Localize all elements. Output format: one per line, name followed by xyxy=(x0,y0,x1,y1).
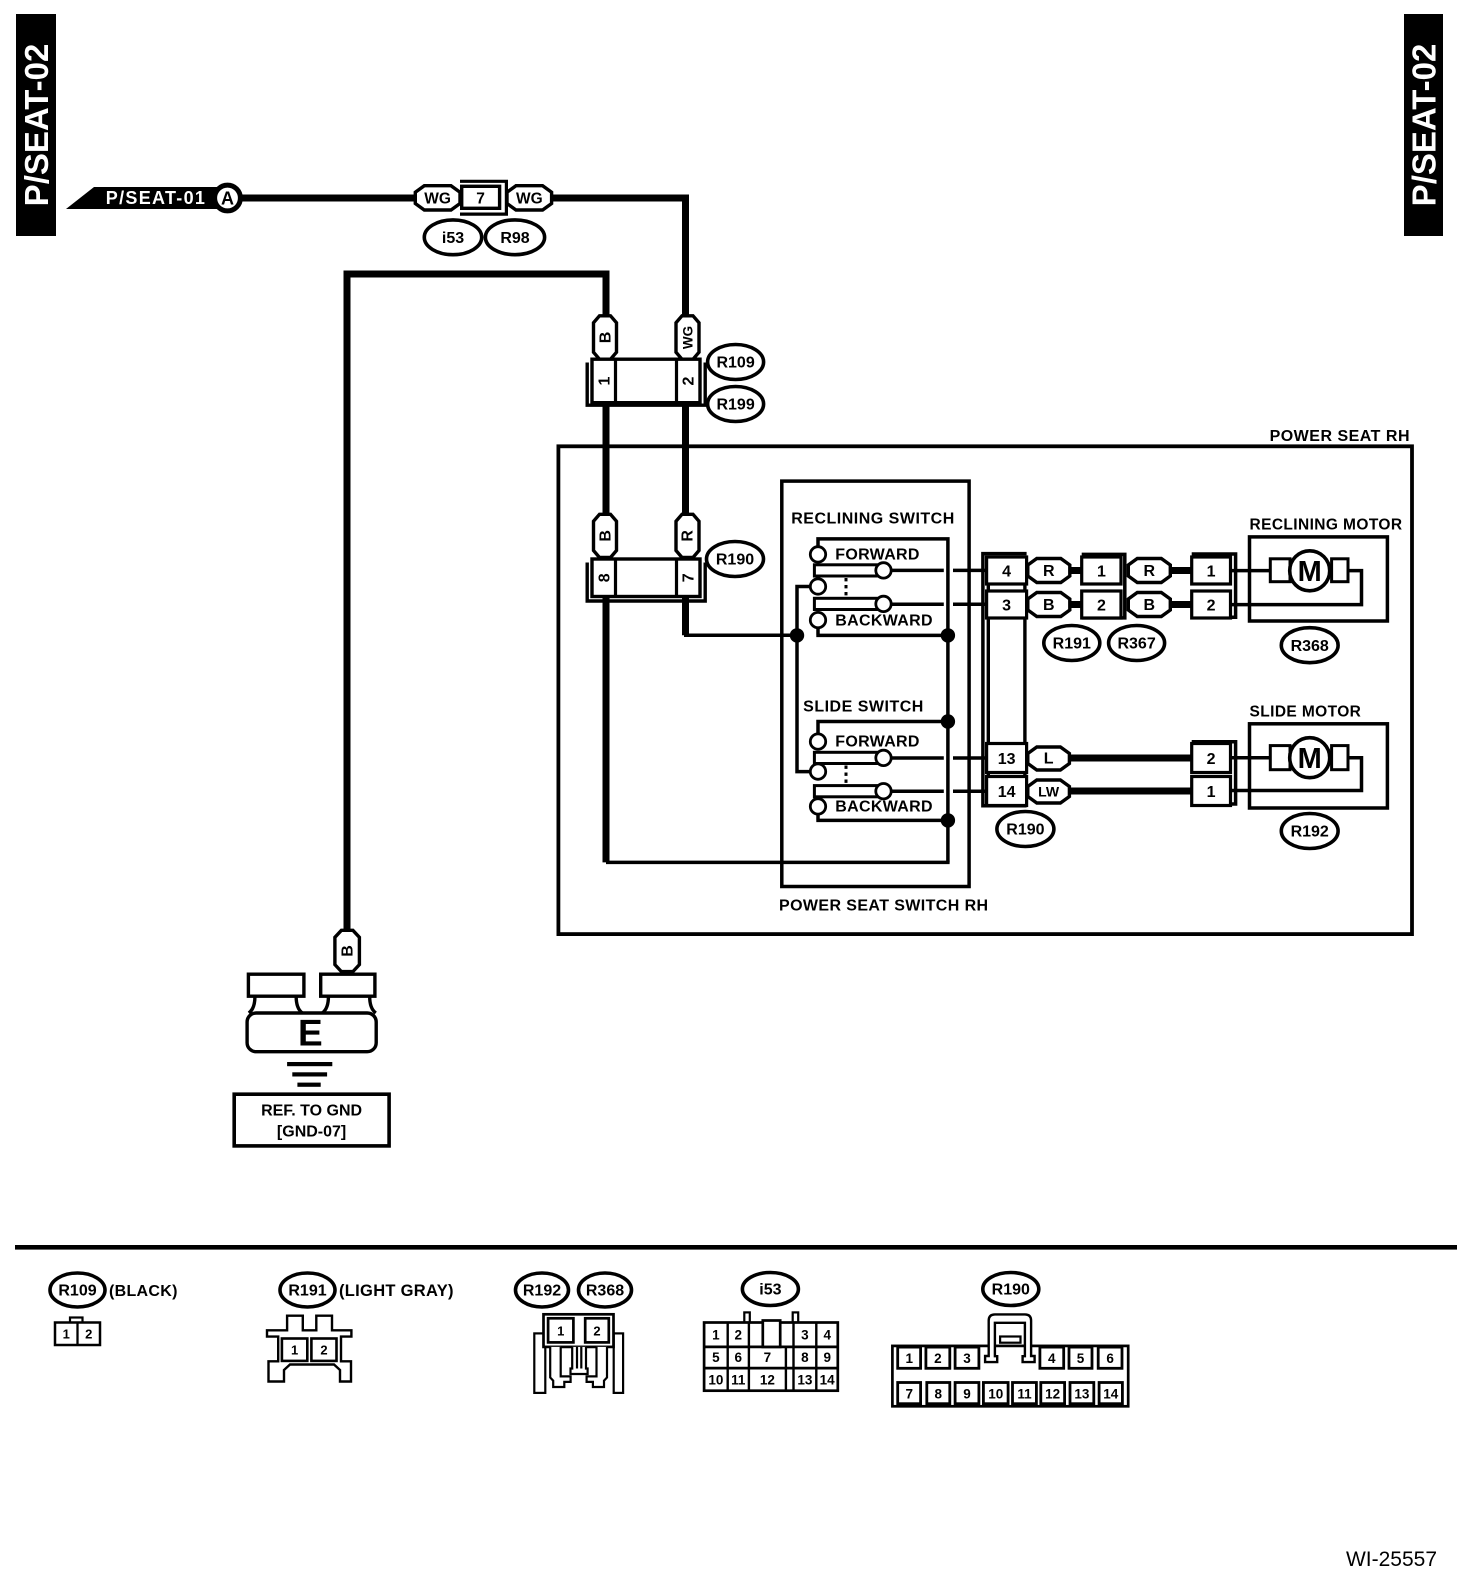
svg-text:5: 5 xyxy=(712,1350,720,1365)
svg-text:R368: R368 xyxy=(1291,638,1329,655)
junction rail slide top xyxy=(941,714,955,728)
svg-text:B: B xyxy=(597,332,614,344)
node A circle xyxy=(215,185,241,211)
svg-text:RECLINING MOTOR: RECLINING MOTOR xyxy=(1250,517,1403,534)
svg-text:R368: R368 xyxy=(586,1283,624,1300)
legend connector label R109 xyxy=(50,1273,178,1307)
svg-text:POWER SEAT RH: POWER SEAT RH xyxy=(1270,428,1410,445)
wire reclining backward to rail xyxy=(816,628,949,636)
wire segment pin7 to junction xyxy=(684,633,797,637)
svg-text:R: R xyxy=(679,530,696,542)
wire R368 pin2 to reclining motor return xyxy=(1231,571,1362,605)
connector label R109 xyxy=(708,345,764,380)
svg-text:2: 2 xyxy=(320,1343,327,1358)
svg-text:R367: R367 xyxy=(1117,636,1155,653)
svg-text:R199: R199 xyxy=(716,397,754,414)
svg-text:B: B xyxy=(1043,597,1055,614)
slide switch wiper lower xyxy=(814,784,891,799)
svg-text:2: 2 xyxy=(934,1351,942,1366)
svg-text:[GND-07]: [GND-07] xyxy=(277,1124,346,1141)
slide motor box xyxy=(1250,703,1388,808)
svg-text:3: 3 xyxy=(1002,597,1011,614)
svg-text:5: 5 xyxy=(1077,1351,1085,1366)
wire color label R row4 xyxy=(1028,559,1070,583)
wire R368 pin1 to reclining motor xyxy=(1231,569,1271,573)
wire R192 pin1 to slide motor return xyxy=(1231,758,1362,791)
connector R190 switch side bracket xyxy=(983,554,1027,806)
svg-text:8: 8 xyxy=(935,1386,943,1401)
connector label R190 switch side xyxy=(997,812,1054,847)
connector R190 pin column xyxy=(988,557,1025,806)
pin 1 of R191/R367 xyxy=(1082,557,1121,584)
pin 13 of R190 xyxy=(987,744,1027,773)
pin WG of connector R109 xyxy=(676,316,699,359)
wire wiper to pin 4 xyxy=(891,569,986,573)
svg-text:3: 3 xyxy=(801,1328,809,1343)
svg-text:i53: i53 xyxy=(759,1282,781,1299)
slide switch forward contact xyxy=(810,734,919,751)
wire color label B to motor xyxy=(1128,593,1170,617)
svg-text:M: M xyxy=(1298,556,1322,588)
connector i53/R98 pin 7 box xyxy=(460,181,506,214)
pin R of connector R190 xyxy=(676,514,699,557)
svg-text:10: 10 xyxy=(988,1386,1003,1401)
slide motor M2 xyxy=(1270,738,1348,778)
wire R190 pin3 to R191 pin2 xyxy=(1070,601,1082,608)
pin 2 of R191/R367 xyxy=(1082,591,1121,618)
svg-text:R98: R98 xyxy=(500,230,529,247)
reclining motor M1 xyxy=(1270,551,1348,591)
svg-text:13: 13 xyxy=(998,751,1016,768)
pin 2 of R192 xyxy=(1192,744,1231,773)
svg-text:R191: R191 xyxy=(288,1283,326,1300)
svg-text:2: 2 xyxy=(1097,597,1106,614)
wire from node A to connector i53 (WG) xyxy=(240,195,415,202)
svg-text:2: 2 xyxy=(85,1327,92,1342)
POWER SEAT SWITCH RH box xyxy=(779,481,988,914)
wire slide backward to rail xyxy=(816,814,949,820)
svg-text:WG: WG xyxy=(516,190,543,207)
junction feed xyxy=(790,628,804,642)
wire segment to rail bottom xyxy=(606,861,950,865)
connector label R98 xyxy=(485,220,544,255)
svg-text:1: 1 xyxy=(557,1324,564,1339)
svg-text:11: 11 xyxy=(1017,1386,1032,1401)
wire R367 to R368 pin1 xyxy=(1170,567,1191,574)
connector label R199 xyxy=(708,387,764,422)
reclining switch forward contact xyxy=(810,547,919,564)
wire B from R190 pin 8 to switch common rail xyxy=(603,597,610,863)
wire B from R109 pin 1 to R190 pin 8 xyxy=(603,403,610,515)
svg-text:8: 8 xyxy=(596,573,613,582)
svg-text:9: 9 xyxy=(823,1350,831,1365)
wire R367 to R368 pin2 xyxy=(1170,601,1191,608)
svg-text:1: 1 xyxy=(905,1351,913,1366)
pin 14 of R190 xyxy=(987,777,1027,806)
svg-text:WG: WG xyxy=(680,326,695,349)
svg-text:R109: R109 xyxy=(716,355,754,372)
svg-text:1: 1 xyxy=(291,1343,298,1358)
svg-text:4: 4 xyxy=(1048,1351,1056,1366)
svg-text:4: 4 xyxy=(823,1328,831,1343)
svg-text:SLIDE SWITCH: SLIDE SWITCH xyxy=(803,699,924,716)
svg-text:LW: LW xyxy=(1038,784,1060,800)
svg-text:POWER SEAT SWITCH RH: POWER SEAT SWITCH RH xyxy=(779,898,988,915)
pin B of ground terminal xyxy=(335,930,360,971)
wire B horizontal to ground drop xyxy=(347,274,606,929)
svg-text:A: A xyxy=(221,189,234,209)
svg-text:WG: WG xyxy=(424,190,451,207)
pin B of connector R190 xyxy=(594,514,617,557)
wire R from R109 pin 2 to R190 pin 7 xyxy=(682,403,689,515)
svg-text:6: 6 xyxy=(1106,1351,1114,1366)
svg-text:BACKWARD: BACKWARD xyxy=(835,799,933,816)
wiper mechanical link slide xyxy=(845,766,848,785)
svg-text:7: 7 xyxy=(476,190,485,207)
svg-text:R109: R109 xyxy=(58,1283,96,1300)
svg-text:P/SEAT-02: P/SEAT-02 xyxy=(18,44,55,207)
pin 4 of R190 xyxy=(987,557,1027,584)
svg-text:2: 2 xyxy=(680,376,697,385)
wire reclining forward contact to common rail xyxy=(818,539,948,863)
legend separator xyxy=(15,1245,1457,1250)
wire feed to switch commons xyxy=(797,587,810,772)
ref to gnd box xyxy=(234,1094,389,1146)
svg-text:R191: R191 xyxy=(1053,636,1091,653)
wire wiper to pin 13 xyxy=(891,756,986,760)
svg-text:2: 2 xyxy=(1207,597,1216,614)
connector label R191 xyxy=(1044,626,1100,661)
reclining motor box xyxy=(1250,517,1403,622)
svg-text:WI-25557: WI-25557 xyxy=(1346,1548,1437,1571)
svg-text:R: R xyxy=(1144,563,1156,580)
svg-text:R190: R190 xyxy=(992,1282,1030,1299)
slide switch backward contact xyxy=(810,799,933,816)
wire color label LW row14 xyxy=(1028,780,1070,803)
svg-text:7: 7 xyxy=(905,1386,913,1401)
wire R192 pin2 to slide motor xyxy=(1231,756,1271,760)
connector R191/R367 bracket xyxy=(1082,554,1125,618)
svg-text:R192: R192 xyxy=(523,1283,561,1300)
svg-text:i53: i53 xyxy=(442,230,464,247)
svg-text:14: 14 xyxy=(998,784,1016,801)
pin 3 of R190 xyxy=(987,591,1027,618)
legend connector label R368 xyxy=(579,1273,632,1307)
svg-text:M: M xyxy=(1298,743,1322,775)
legend connector R190 pinout xyxy=(892,1314,1128,1406)
svg-text:6: 6 xyxy=(735,1350,743,1365)
reclining switch common contact xyxy=(810,579,825,594)
page banner P/SEAT-02 left xyxy=(16,14,56,236)
svg-text:9: 9 xyxy=(963,1386,971,1401)
wire LW R190 pin14 to R192 pin1 xyxy=(1069,788,1191,795)
wire L R190 pin13 to R192 pin2 xyxy=(1069,755,1191,762)
connector label R192 xyxy=(1281,814,1338,849)
connector label R367 xyxy=(1109,626,1165,661)
junction rail reclining xyxy=(941,628,955,642)
svg-text:E: E xyxy=(298,1013,323,1054)
svg-text:1: 1 xyxy=(1097,563,1106,580)
svg-text:13: 13 xyxy=(1074,1386,1090,1401)
legend connector label i53 xyxy=(742,1273,798,1306)
legend connector label R192 xyxy=(516,1273,569,1307)
svg-text:10: 10 xyxy=(708,1372,723,1387)
ground terminal E xyxy=(247,974,376,1053)
connector R190 mating bracket xyxy=(587,563,705,602)
svg-text:FORWARD: FORWARD xyxy=(835,547,919,564)
connector label R190 xyxy=(707,542,764,577)
legend connector R109 pinout xyxy=(55,1318,100,1346)
legend connector R192/R368 pinout xyxy=(534,1314,623,1393)
connector R109/R199 mating bracket xyxy=(587,363,705,406)
svg-text:1: 1 xyxy=(596,376,613,385)
junction rail slide bottom xyxy=(941,813,955,827)
svg-text:7: 7 xyxy=(764,1350,772,1365)
svg-text:12: 12 xyxy=(1045,1386,1060,1401)
connector label R368 xyxy=(1281,628,1338,663)
slide switch wiper upper xyxy=(814,750,891,765)
svg-text:R: R xyxy=(1043,563,1055,580)
svg-text:2: 2 xyxy=(735,1328,743,1343)
connector R368 bracket xyxy=(1192,554,1236,617)
svg-text:B: B xyxy=(597,530,614,542)
reclining switch wiper upper xyxy=(814,563,891,578)
svg-text:SLIDE MOTOR: SLIDE MOTOR xyxy=(1250,703,1362,720)
page banner P/SEAT-02 right xyxy=(1404,14,1443,236)
svg-text:REF. TO GND: REF. TO GND xyxy=(261,1103,362,1120)
wire color label WG right xyxy=(507,186,552,210)
wire color label L row13 xyxy=(1028,747,1070,770)
ground symbol xyxy=(287,1062,332,1087)
svg-text:14: 14 xyxy=(1103,1386,1119,1401)
wire WG from i53 to connector R109 pin 2 xyxy=(552,198,686,316)
reclining switch backward contact xyxy=(810,612,933,629)
svg-text:R190: R190 xyxy=(1006,822,1044,839)
connector label i53 xyxy=(424,220,481,255)
wire R from R190 pin 7 to switch feed xyxy=(682,597,689,636)
svg-text:R192: R192 xyxy=(1291,824,1329,841)
wiper mechanical link reclining xyxy=(845,578,848,598)
svg-text:(BLACK): (BLACK) xyxy=(109,1283,178,1300)
svg-text:BACKWARD: BACKWARD xyxy=(835,613,933,630)
wire wiper to pin 14 xyxy=(891,789,986,793)
wire color label R to motor xyxy=(1128,559,1170,583)
reclining switch wiper lower xyxy=(814,596,891,611)
legend connector i53 pinout xyxy=(704,1312,838,1390)
wire color label B row3 xyxy=(1028,593,1070,617)
svg-text:1: 1 xyxy=(63,1327,70,1342)
svg-text:B: B xyxy=(1144,597,1156,614)
svg-text:1: 1 xyxy=(1207,784,1216,801)
legend connector label R190 xyxy=(983,1273,1039,1306)
wire color label WG left xyxy=(415,186,460,210)
svg-text:2: 2 xyxy=(593,1324,600,1339)
svg-text:2: 2 xyxy=(1207,751,1216,768)
svg-text:3: 3 xyxy=(963,1351,971,1366)
svg-text:L: L xyxy=(1044,751,1054,768)
svg-text:P/SEAT-01: P/SEAT-01 xyxy=(106,188,206,208)
POWER SEAT RH box xyxy=(558,428,1412,934)
svg-text:13: 13 xyxy=(797,1372,813,1387)
svg-text:8: 8 xyxy=(801,1350,809,1365)
svg-text:FORWARD: FORWARD xyxy=(835,734,919,751)
pin 1 of R368 xyxy=(1192,557,1231,584)
connector R109/R199 body pins 1 2 xyxy=(592,359,700,403)
wire wiper to pin 3 xyxy=(891,602,986,606)
svg-text:1: 1 xyxy=(712,1328,720,1343)
pin 2 of R368 xyxy=(1192,591,1231,618)
off-page flag P/SEAT-01 xyxy=(66,187,218,209)
svg-text:4: 4 xyxy=(1002,563,1011,580)
svg-text:7: 7 xyxy=(680,573,697,582)
legend connector label R191 xyxy=(280,1273,454,1307)
svg-text:12: 12 xyxy=(760,1372,775,1387)
wire slide forward contact to rail xyxy=(818,722,948,735)
legend connector R191 pinout xyxy=(267,1316,351,1382)
svg-text:RECLINING SWITCH: RECLINING SWITCH xyxy=(791,511,955,528)
svg-text:R190: R190 xyxy=(716,552,754,569)
wire R190 pin4 to R191 pin1 xyxy=(1070,567,1082,574)
svg-text:(LIGHT GRAY): (LIGHT GRAY) xyxy=(339,1282,454,1300)
connector R192 motor side bracket xyxy=(1192,742,1236,804)
svg-text:B: B xyxy=(340,945,357,957)
pin 1 of R192 xyxy=(1192,777,1231,806)
slide switch common contact xyxy=(810,764,825,779)
pin B of connector R109 xyxy=(594,316,617,359)
svg-text:1: 1 xyxy=(1207,563,1216,580)
connector R190 body pins 8 7 xyxy=(592,559,700,597)
svg-text:P/SEAT-02: P/SEAT-02 xyxy=(1406,44,1443,207)
svg-text:11: 11 xyxy=(731,1372,746,1387)
svg-text:14: 14 xyxy=(820,1372,836,1387)
